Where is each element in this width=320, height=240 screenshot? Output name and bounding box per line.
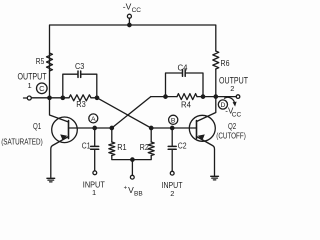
resistor R2 <box>148 142 154 156</box>
label (SATURATED) <box>1 137 43 146</box>
transistor Q1 base bar <box>68 121 70 139</box>
junction R1 top <box>110 126 113 129</box>
ground Q2 <box>211 175 219 177</box>
label -Vcc right <box>225 106 241 118</box>
wire R2 lead top <box>150 128 152 142</box>
resistor R6 <box>213 51 219 69</box>
transistor Q2 emitter lead <box>197 137 215 176</box>
label OUTPUT 1 <box>18 72 47 90</box>
node D <box>218 100 227 109</box>
svg-text:R4: R4 <box>181 101 192 110</box>
junction C3 right <box>95 96 98 99</box>
junction C4 left <box>164 95 167 98</box>
node B <box>169 115 178 124</box>
svg-text:(CUTOFF): (CUTOFF) <box>216 131 246 140</box>
svg-text:+: + <box>124 186 128 192</box>
svg-text:OUTPUT: OUTPUT <box>18 72 47 82</box>
wire output1 stub <box>24 97 28 99</box>
wire output1 to R3 <box>31 97 69 99</box>
svg-text:Q1: Q1 <box>33 122 42 131</box>
node A <box>89 114 98 123</box>
resistor R1 <box>109 142 115 156</box>
transistor Q2 emitter arrow <box>198 134 205 140</box>
wire Vbb lead <box>131 160 133 176</box>
label C2 <box>178 142 187 151</box>
label Q1 <box>33 122 42 131</box>
svg-text:(SATURATED): (SATURATED) <box>1 137 43 146</box>
node input1 terminal <box>93 171 97 175</box>
capacitor C1 lead top <box>94 128 96 146</box>
svg-text:C: C <box>39 84 45 93</box>
transistor Q2 collector lead <box>197 97 216 122</box>
junction C2 top <box>171 126 174 129</box>
label R1 <box>117 143 127 152</box>
transistor Q1 emitter lead <box>51 137 69 178</box>
svg-text:2: 2 <box>230 84 234 93</box>
svg-text:1: 1 <box>92 188 96 197</box>
label C4 <box>178 63 189 72</box>
svg-text:R5: R5 <box>36 57 45 66</box>
label C1 <box>82 142 91 151</box>
svg-text:C2: C2 <box>178 142 187 151</box>
svg-text:1: 1 <box>28 81 32 90</box>
capacitor C4 bypass loop <box>166 73 183 97</box>
junction diag R2 top <box>150 126 153 129</box>
transistor Q2 base bar <box>196 121 198 139</box>
svg-text:R3: R3 <box>76 100 86 109</box>
transistor Q1 emitter arrow <box>60 134 67 140</box>
capacitor C2 lead top <box>171 128 173 146</box>
svg-text:R6: R6 <box>221 59 230 68</box>
junction C4 right <box>201 95 204 98</box>
svg-text:CC: CC <box>132 7 142 14</box>
svg-text:BB: BB <box>134 191 143 198</box>
capacitor C4 plates <box>182 70 184 76</box>
node output2 terminal <box>236 95 240 99</box>
svg-text:C3: C3 <box>75 62 85 71</box>
junction C3 left <box>61 96 64 99</box>
wire R1 R2 bottom bus <box>112 156 151 160</box>
wire -Vcc lead <box>128 18 130 25</box>
label C3 <box>75 62 85 71</box>
junction Vbb tap <box>131 158 134 161</box>
annotation arrow to -Vcc <box>225 97 235 103</box>
wire cross-coupling R4 to node A <box>112 97 151 128</box>
wire cross-coupling R3 to node B <box>97 98 151 128</box>
ground Q1 <box>47 177 55 179</box>
label R3 <box>76 100 86 109</box>
label R4 <box>181 101 192 110</box>
svg-text:R1: R1 <box>117 143 127 152</box>
svg-text:B: B <box>171 117 176 124</box>
junction top bus <box>128 23 131 26</box>
label R2 <box>140 143 149 152</box>
label INPUT 1 <box>83 179 105 197</box>
label -Vcc top <box>123 1 141 14</box>
node C <box>37 83 48 94</box>
wire node B base <box>151 127 197 129</box>
capacitor C1 lead bottom <box>94 150 96 171</box>
junction R6 collector <box>214 95 217 98</box>
svg-text:C1: C1 <box>82 142 91 151</box>
label R5 <box>36 57 45 66</box>
wire top supply bus <box>50 25 216 98</box>
svg-text:-V: -V <box>123 1 132 11</box>
resistor R4 <box>177 94 197 100</box>
junction C1 top <box>93 126 96 129</box>
resistor R5 <box>47 53 53 71</box>
label (CUTOFF) <box>216 131 246 140</box>
label OUTPUT 2 <box>219 76 248 94</box>
svg-text:R2: R2 <box>140 143 149 152</box>
wire R3 right <box>91 97 97 99</box>
label +Vbb <box>124 185 143 198</box>
junction R5 collector <box>48 96 51 99</box>
label Q2 <box>228 122 237 131</box>
wire output2 main <box>151 96 177 98</box>
resistor R3 <box>69 95 91 101</box>
label INPUT 2 <box>162 180 183 198</box>
capacitor C1 plates <box>91 145 99 147</box>
node input2 terminal <box>170 171 174 175</box>
capacitor C3 bypass loop <box>63 74 78 98</box>
node output1 terminal <box>27 96 31 100</box>
capacitor C2 lead bottom <box>171 150 173 172</box>
svg-text:Q2: Q2 <box>228 122 237 131</box>
label R6 <box>221 59 230 68</box>
transistor Q2 body <box>189 115 215 141</box>
wire R6 to output2 wire <box>215 69 217 97</box>
capacitor C3 plates <box>77 71 79 77</box>
node +Vbb terminal <box>130 175 134 179</box>
node -Vcc terminal <box>127 14 131 18</box>
svg-text:A: A <box>91 116 96 123</box>
svg-text:CC: CC <box>232 112 242 119</box>
svg-text:C4: C4 <box>178 63 189 72</box>
transistor Q1 collector lead <box>50 98 69 122</box>
capacitor C2 plates <box>168 145 176 147</box>
wire R1 lead top <box>111 128 113 142</box>
wire node A base <box>69 127 112 129</box>
svg-text:2: 2 <box>170 189 174 198</box>
transistor Q1 body <box>52 117 78 143</box>
